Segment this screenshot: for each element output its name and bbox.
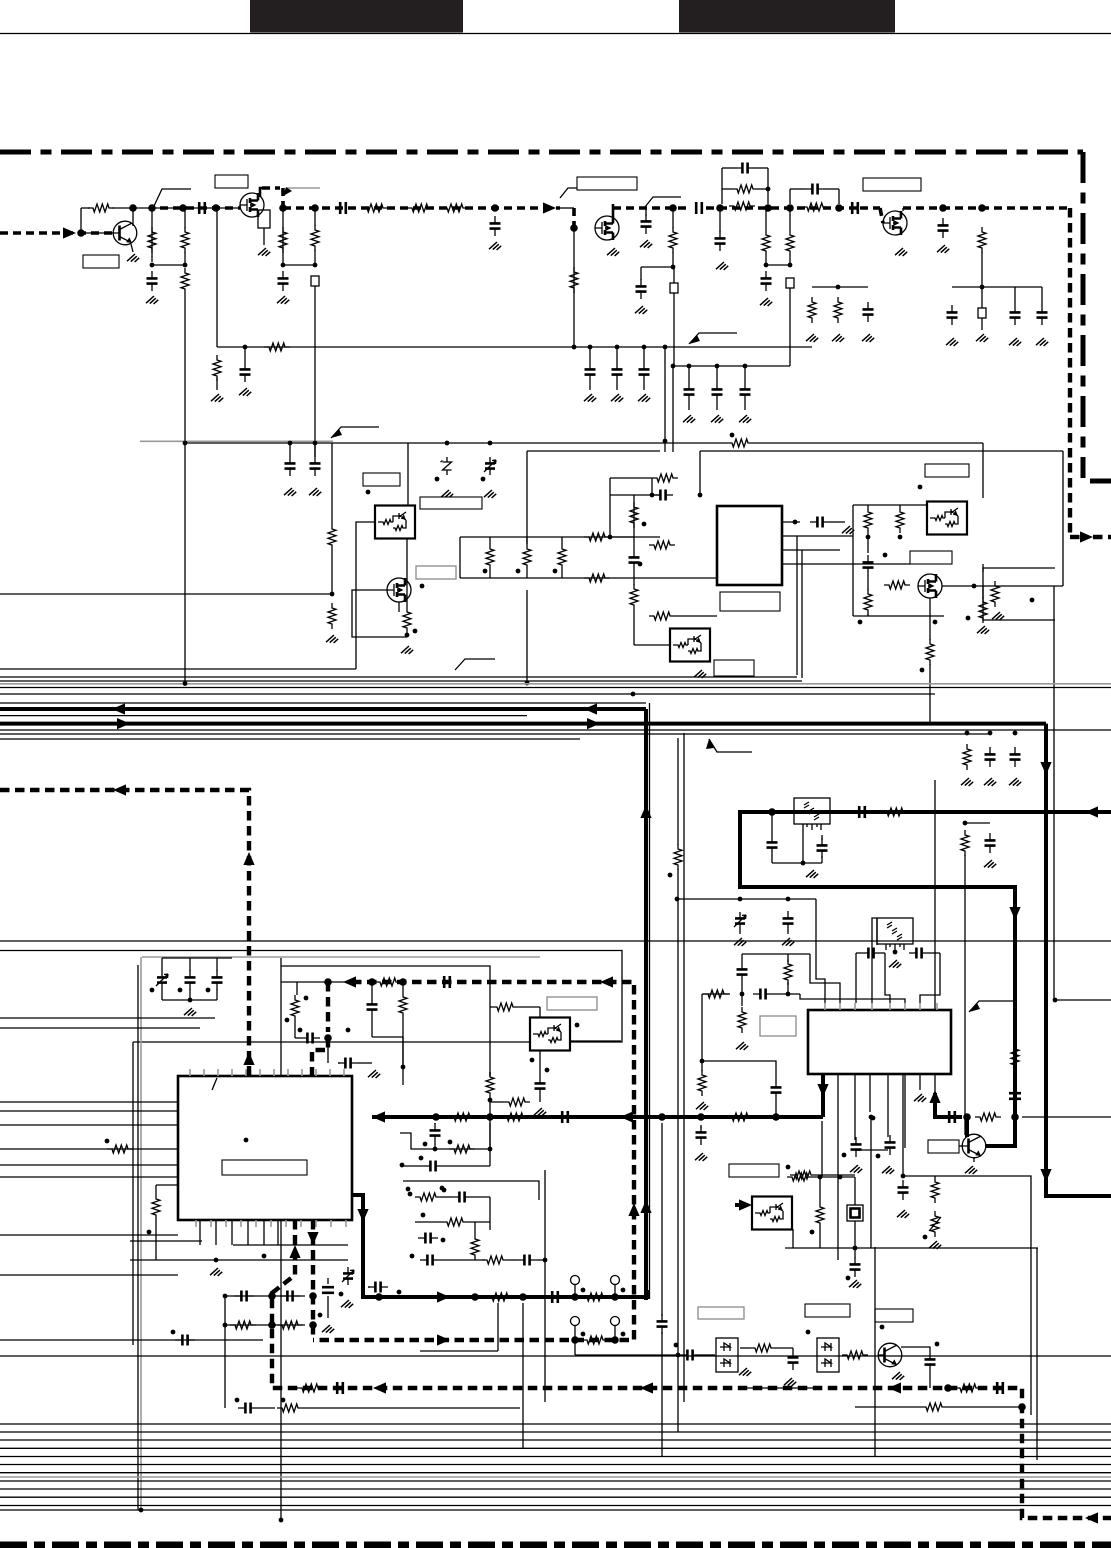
flow arrow <box>117 718 130 729</box>
wire <box>688 366 690 382</box>
pin wire <box>300 1220 302 1227</box>
IC U3 (control unit) <box>178 1076 352 1220</box>
node N107 <box>433 1147 438 1152</box>
header rule <box>0 33 1111 35</box>
capacitor C18 <box>947 305 958 325</box>
wire <box>721 168 723 204</box>
wire <box>782 563 910 565</box>
wire <box>633 537 635 550</box>
wire <box>561 570 563 578</box>
resistor R7 <box>407 204 433 212</box>
capacitor C29 <box>740 382 751 402</box>
wire <box>289 443 291 456</box>
wire <box>767 168 769 204</box>
node N120 <box>171 1330 176 1335</box>
wire <box>225 1295 305 1297</box>
node N155 <box>818 1175 823 1180</box>
value label L16 <box>925 464 969 477</box>
wire <box>643 347 645 362</box>
wire <box>673 267 675 283</box>
ground <box>489 242 501 250</box>
node N116 <box>871 1116 876 1121</box>
wire <box>855 1149 888 1151</box>
node N113 <box>406 1187 411 1192</box>
wire down to rail <box>216 208 218 347</box>
node N115 <box>842 1153 847 1158</box>
transistor Q12 (digital) <box>752 1197 792 1230</box>
long vertical <box>314 286 316 457</box>
audio line (thick) <box>352 1195 648 1297</box>
IC3 marking <box>212 1078 217 1090</box>
node N166 <box>806 1330 811 1335</box>
wire <box>489 1123 491 1166</box>
value label L1 <box>83 255 119 268</box>
resistor R24 <box>584 533 610 541</box>
resistor R1 <box>88 204 114 212</box>
capacitor C17 <box>938 218 949 238</box>
ground <box>849 1280 861 1288</box>
capacitor C26 <box>240 362 251 382</box>
pin wire <box>189 1069 191 1076</box>
node N30 <box>572 345 577 350</box>
node N132 <box>223 1323 228 1328</box>
wire <box>314 443 316 456</box>
node N167 <box>139 1508 144 1513</box>
node N6 <box>150 263 155 268</box>
pin wire <box>231 1220 233 1245</box>
node N109 <box>448 1140 453 1145</box>
wire <box>518 1006 540 1008</box>
IF exit (bold dashed) <box>1093 535 1111 539</box>
node N153 <box>410 1254 415 1259</box>
bus line <box>0 729 1111 731</box>
callout arrow <box>283 187 292 196</box>
ground <box>146 296 158 304</box>
wire bias <box>151 208 153 262</box>
value label L18 <box>760 1016 796 1036</box>
node N32 <box>671 364 676 369</box>
capacitor C23 <box>585 362 596 382</box>
node N89 <box>304 996 309 1001</box>
pin wire <box>199 1220 201 1245</box>
capacitor C59 <box>771 1080 782 1100</box>
flow arrow <box>1085 806 1098 817</box>
wire <box>400 1133 490 1149</box>
wire <box>1055 999 1111 1001</box>
node N78 <box>150 988 155 993</box>
ground <box>683 415 695 423</box>
ground <box>1036 338 1048 346</box>
wire <box>434 1143 436 1149</box>
capacitor C3 <box>278 271 289 291</box>
node N93 <box>488 1098 493 1103</box>
wire <box>468 1221 490 1223</box>
pin wire <box>315 1069 317 1076</box>
resistor R15 <box>834 297 842 323</box>
value label L8 <box>863 178 921 191</box>
node N125 <box>1018 1403 1026 1411</box>
node N33 <box>687 364 692 369</box>
node N64 <box>858 620 863 625</box>
wire <box>633 570 635 585</box>
node N154 <box>397 1290 402 1295</box>
RF flow arrow <box>63 227 76 238</box>
flow arrow <box>888 1382 901 1393</box>
crystal X1 <box>847 1205 863 1221</box>
wire <box>184 252 186 265</box>
capacitor C34 <box>629 550 640 570</box>
node N77 <box>188 998 193 1003</box>
value label L14 <box>910 551 952 564</box>
wire <box>244 347 246 362</box>
capacitor C77 <box>420 1255 440 1266</box>
wire <box>610 477 652 479</box>
node N21 <box>764 263 769 268</box>
node N20 <box>835 204 843 212</box>
sub-circuit border <box>983 568 1055 620</box>
wire <box>440 1259 485 1261</box>
wire <box>810 954 840 1003</box>
wire <box>634 644 670 646</box>
node N160 <box>869 1115 874 1120</box>
resistor R26 <box>630 502 638 528</box>
wire <box>162 999 217 1001</box>
bus riser (thick) <box>644 709 648 1300</box>
wire <box>672 252 674 267</box>
node N18 <box>766 187 771 192</box>
node N25 <box>980 285 985 290</box>
bus line <box>0 1505 1111 1507</box>
wire <box>787 954 789 962</box>
node N139 <box>571 1293 579 1301</box>
node N105 <box>697 1113 705 1121</box>
wire <box>133 1148 178 1150</box>
ground <box>284 488 296 496</box>
node N67 <box>1030 598 1035 603</box>
capacitor C85 <box>657 1314 668 1334</box>
capacitor C53 <box>861 948 881 959</box>
wire <box>821 1121 823 1177</box>
pin wire <box>329 1069 331 1076</box>
IC U1 (PLL) <box>717 506 782 585</box>
node N5 <box>212 204 220 212</box>
resistor R69 <box>582 1336 608 1344</box>
pin wire <box>301 1069 303 1076</box>
wire <box>189 989 191 1000</box>
node N159 <box>846 1276 851 1281</box>
wire vcc2 <box>408 442 560 444</box>
FET Q8 (buffer) <box>918 574 942 598</box>
resistor R22 <box>523 544 531 570</box>
capacitor C2 <box>147 271 158 291</box>
wire <box>776 1347 793 1349</box>
node N58 <box>866 535 871 540</box>
potentiometer VR4 <box>611 1317 620 1338</box>
wire <box>854 1177 856 1205</box>
wire <box>802 830 804 863</box>
wire <box>675 615 717 617</box>
wire rail <box>460 536 660 538</box>
value label L15 <box>714 660 754 676</box>
wire <box>539 1007 541 1018</box>
node N24 <box>978 204 986 212</box>
wire <box>901 1347 930 1352</box>
node N72 <box>801 861 806 866</box>
bypass rail <box>952 286 1042 288</box>
wire <box>821 835 823 840</box>
wire <box>609 478 611 537</box>
wire <box>853 504 932 506</box>
node N145 <box>571 1336 579 1344</box>
capacitor C11 <box>715 231 726 251</box>
ground <box>929 1241 941 1249</box>
resistor R19 <box>328 603 336 629</box>
callout line <box>645 197 681 207</box>
wire <box>472 1196 490 1198</box>
wire <box>402 1018 404 1067</box>
bus line <box>0 1447 1111 1449</box>
callout leader <box>969 1001 1017 1012</box>
resistor R32 <box>864 507 872 533</box>
pin wire <box>315 1220 317 1227</box>
capacitor C12 <box>735 163 755 174</box>
callout line <box>287 187 320 189</box>
ground <box>258 248 270 256</box>
wire <box>398 602 400 612</box>
LO path (bold dashed) <box>313 982 634 1340</box>
ground <box>739 415 751 423</box>
node N146 <box>611 1336 619 1344</box>
resistor R27 <box>652 474 678 482</box>
node N79 <box>178 988 183 993</box>
wire <box>132 1042 134 1345</box>
wire <box>281 981 353 983</box>
ground <box>534 1108 546 1116</box>
bus line <box>0 693 935 695</box>
node N46 <box>405 633 410 638</box>
wire <box>560 207 574 209</box>
pin wire <box>904 1074 906 1148</box>
node N151 <box>421 1213 426 1218</box>
capacitor C79 <box>368 1282 388 1293</box>
sub-circuit border <box>403 1181 539 1200</box>
ground <box>842 526 854 534</box>
wire <box>789 288 791 366</box>
wire <box>716 366 718 382</box>
callout line <box>560 188 598 198</box>
capacitor C67 <box>997 1382 1003 1394</box>
bus line <box>0 1339 263 1341</box>
RF line (dashed) <box>348 206 560 210</box>
wire <box>490 1101 504 1103</box>
pin wire <box>231 1069 233 1076</box>
wire base branch <box>80 208 82 233</box>
flow arrow <box>373 1382 386 1393</box>
node N141 <box>581 1288 586 1293</box>
node N95 <box>893 950 898 955</box>
capacitor C49 <box>300 1033 320 1044</box>
wire <box>1014 287 1016 305</box>
bus line <box>0 1027 200 1029</box>
node N123 <box>262 1254 267 1259</box>
wire <box>816 899 825 1003</box>
capacitor C69 <box>280 1291 300 1302</box>
flow arrow <box>1040 1169 1051 1182</box>
bus line <box>0 1509 1022 1511</box>
node N44 <box>366 490 371 495</box>
node <box>183 681 188 686</box>
ground <box>277 296 289 304</box>
wire <box>981 252 983 287</box>
wire <box>233 1244 348 1246</box>
flow arrow <box>584 703 597 714</box>
node N84 <box>324 1034 332 1042</box>
resistor R38 <box>991 581 999 607</box>
resistor R28 <box>630 584 638 610</box>
resistor R45 <box>399 992 407 1018</box>
wire <box>616 347 618 362</box>
capacitor C5 (coupling) <box>340 202 346 214</box>
value label L3 <box>215 175 248 188</box>
filter CF1 (ceramic) <box>794 798 830 830</box>
ground <box>992 612 1004 620</box>
wire <box>616 382 618 390</box>
wire <box>929 952 940 954</box>
bus line <box>0 738 580 740</box>
wire <box>719 208 721 232</box>
node N144 <box>621 1332 626 1337</box>
wire <box>81 232 113 234</box>
bus line <box>0 1472 1111 1474</box>
inductor L2 <box>181 227 189 253</box>
resistor R23 <box>558 544 566 570</box>
node N53 <box>698 493 703 498</box>
node N152 <box>441 1238 446 1243</box>
wire <box>327 1296 329 1318</box>
wire <box>965 822 990 824</box>
capacitor C51 <box>367 997 378 1017</box>
node N54 <box>608 535 613 540</box>
capacitor C39 <box>767 835 778 855</box>
bus line <box>0 1124 178 1126</box>
capacitor C50 <box>338 1058 358 1069</box>
flow arrow <box>112 703 125 714</box>
wire <box>771 812 773 835</box>
bus riser (thick) <box>1046 724 1111 1196</box>
bus line <box>0 1355 1111 1357</box>
wire <box>830 521 845 523</box>
wire <box>789 189 791 204</box>
ground <box>889 960 901 968</box>
FET Q4 (2nd stage) <box>883 211 907 235</box>
wire <box>474 1222 476 1234</box>
long wire <box>1053 586 1055 1000</box>
wire down to rail2 <box>673 293 675 366</box>
pin wire <box>871 1003 873 1010</box>
ground <box>1009 338 1021 346</box>
wire <box>189 958 191 971</box>
wire <box>744 366 746 382</box>
node N48 <box>483 569 488 574</box>
node N23 <box>939 204 947 212</box>
wire <box>765 208 767 230</box>
bus line <box>0 1488 1111 1490</box>
resistor R67 <box>487 1293 513 1301</box>
node N97 <box>738 897 743 902</box>
flow arrow <box>600 976 613 987</box>
node N104 <box>658 1113 666 1121</box>
capacitor C58 <box>753 989 773 1000</box>
inductor L4 <box>311 225 319 251</box>
pin wire <box>215 1220 217 1245</box>
wire <box>522 1303 524 1448</box>
node N135 <box>281 1398 286 1403</box>
resistor R47 <box>504 1098 530 1106</box>
resistor R10 <box>729 202 755 210</box>
pin wire <box>854 1003 856 1010</box>
flow arrow <box>640 805 651 818</box>
FET Q2 (RF mux) <box>240 193 264 217</box>
node N163 <box>876 1154 881 1159</box>
wire <box>942 585 1063 587</box>
wire <box>161 958 163 971</box>
bus line <box>0 687 1111 689</box>
diode D1 (zener) <box>441 457 452 475</box>
node N11 <box>313 263 318 268</box>
wire <box>741 954 743 962</box>
node N17 <box>764 204 772 212</box>
bus line <box>0 680 802 682</box>
transistor Q11 (AF mute) <box>962 1134 986 1158</box>
bus line <box>0 1464 1111 1466</box>
ground <box>984 860 996 868</box>
ground <box>914 1094 926 1102</box>
capacitor C25 <box>639 362 650 382</box>
wire <box>225 1324 305 1326</box>
wire emitter <box>131 244 133 252</box>
capacitor C52 <box>535 1076 546 1096</box>
wire bus <box>0 593 332 595</box>
resistor R37 <box>926 639 934 665</box>
wire <box>744 402 746 410</box>
wire <box>371 1017 373 1037</box>
node N161 <box>901 1174 906 1179</box>
wire <box>790 188 805 190</box>
wire <box>296 982 298 995</box>
node N102 <box>432 1113 440 1121</box>
capacitor C73 <box>552 1291 558 1303</box>
wire <box>575 1354 680 1356</box>
resistor R70 <box>415 1193 441 1201</box>
node N91 <box>530 1058 535 1063</box>
resistor R36 <box>979 597 987 623</box>
wire <box>459 537 461 578</box>
flow arrow <box>243 1052 254 1065</box>
wire <box>294 1021 296 1038</box>
wire <box>959 1145 963 1147</box>
wire <box>740 1347 750 1349</box>
wire <box>81 207 90 209</box>
resistor R35 <box>884 581 910 589</box>
capacitor C66 <box>337 1382 343 1394</box>
wire <box>574 1340 576 1355</box>
resistor R4 (source) <box>258 210 270 228</box>
wire <box>688 402 690 410</box>
resistor R63 <box>921 1403 947 1411</box>
frame border right (dash-dot) <box>1081 152 1086 478</box>
capacitor C62 <box>423 1161 443 1172</box>
node N138 <box>519 1293 527 1301</box>
